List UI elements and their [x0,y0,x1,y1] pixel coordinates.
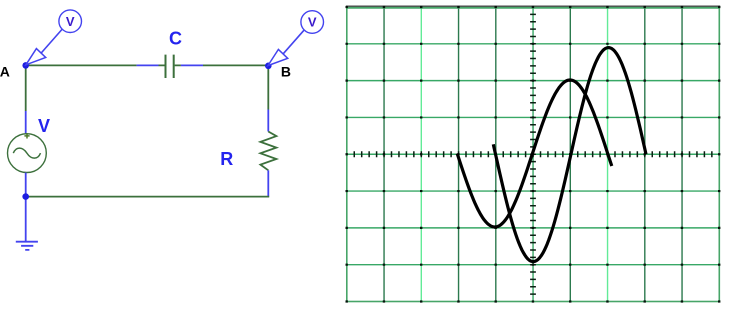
scope grid horizontal line 6 [347,227,720,229]
scope center vertical axis ticks [530,14,536,294]
node A junction dot [22,62,29,69]
scope screen top dark edge line [346,5,720,7]
wire source bottom node to ground [25,197,27,242]
svg-text:B: B [281,64,291,80]
voltmeter probe at node A: arrow tip [26,49,46,65]
AC source plus sign [24,133,29,138]
voltmeter probe at node A: meter circle [59,10,82,33]
svg-text:V: V [308,15,317,30]
scope grid vertical line 1 [383,7,385,302]
scope grid vertical line 3 [458,7,460,302]
bottom node junction dot [22,193,29,200]
scope grid vertical line 9 [681,7,683,302]
capacitor C1 right lead (blue) [181,64,203,66]
waveform trace 2 (channel B, larger amplitude, ~90 deg lag) [493,48,646,262]
voltmeter probe at node B: arrow tip [268,49,288,65]
resistor R1 top lead (blue) [267,110,269,132]
oscilloscope screen background [346,6,721,303]
svg-text:V: V [38,116,50,136]
scope grid vertical line 5 [532,7,534,302]
scope grid intersection dots [346,7,721,302]
scope grid vertical line 6 [569,7,571,302]
AC source V body (circle + sine) [8,134,47,173]
scope grid vertical line 4 [495,7,497,302]
scope screen top dark edge [347,7,720,9]
capacitor C1 left lead (blue) [137,64,159,66]
node B junction dot [265,63,272,70]
bottom horizontal wire (resistor to source) [27,196,269,198]
svg-text:C: C [169,29,182,49]
scope center horizontal axis ticks [354,151,712,157]
scope grid horizontal line 3 [347,116,720,118]
scope grid horizontal line 2 [347,80,720,82]
wire capacitor to node B (top right horizontal) [203,64,268,66]
wire node A to capacitor (top left horizontal) [26,64,137,66]
voltmeter probe at node B: connecting line [283,30,304,54]
scope screen border [347,7,720,302]
scope grid horizontal line 5 [347,190,720,192]
scope grid horizontal line 1 [347,43,720,45]
scope grid vertical line 7 [607,7,609,302]
waveform trace 1 (channel A, smaller amplitude) [457,80,612,227]
ground symbol [16,242,38,250]
svg-text:R: R [220,149,233,169]
capacitor C1 body [159,55,181,78]
AC source V top lead (blue) [25,111,27,134]
voltmeter probe at node B: meter circle [301,11,324,34]
resistor R1 bottom lead (blue) [267,170,269,196]
resistor R1 zigzag body [260,132,276,171]
scope grid vertical line 2 [420,7,422,302]
AC source bottom lead (blue) [25,173,27,197]
scope grid vertical line 8 [644,7,646,302]
wire node B down to resistor [267,65,269,109]
wire node A down to source [25,65,27,111]
scope grid horizontal line 7 [347,264,720,266]
svg-text:A: A [0,63,10,79]
scope grid horizontal line 4 [347,153,720,155]
voltmeter probe at node A: connecting line [41,29,62,53]
svg-text:V: V [66,14,75,29]
